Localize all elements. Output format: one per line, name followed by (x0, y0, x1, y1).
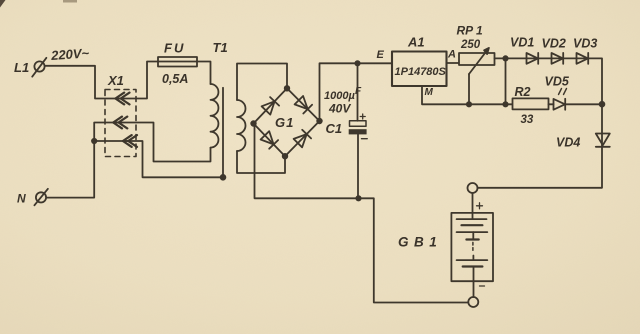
svg-text:0,5A: 0,5A (162, 72, 188, 86)
svg-text:F: F (355, 86, 362, 97)
junction dot right column (600, 102, 605, 107)
X1 contact 1 (115, 93, 129, 105)
resistor R2 (513, 98, 549, 109)
transformer T1 primary winding (211, 84, 219, 148)
svg-text:1Р14780S: 1Р14780S (395, 66, 447, 78)
svg-text:T1: T1 (213, 40, 228, 55)
svg-text:X1: X1 (107, 73, 124, 88)
svg-text:N: N (17, 192, 26, 206)
wire T1 secondary top to bridge input (237, 64, 287, 101)
junction dot C1 bottom (356, 196, 360, 200)
svg-text:G1: G1 (275, 115, 294, 130)
bridge diode bottom-right (294, 130, 312, 148)
wire VD5 to right column (565, 103, 602, 105)
wire junction to X1 contact 3 (94, 140, 128, 142)
wire bridge plus output to A1 input (320, 63, 393, 121)
svg-text:C1: C1 (326, 121, 343, 136)
bridge diode top-left (262, 97, 280, 115)
svg-text:1000µ: 1000µ (324, 90, 355, 102)
connector X1 dashed outline (105, 90, 136, 157)
bridge diode bottom-left (261, 131, 279, 149)
svg-text:VD5: VD5 (545, 75, 570, 89)
wire A1 output to RP1 (447, 62, 460, 64)
diode VD1 (527, 53, 539, 64)
wire T1 secondary bottom to bridge input (237, 151, 285, 173)
wire X1 contact 1 to fuse FU (119, 62, 211, 99)
wire N to X1 contacts 2 and 3 (47, 123, 120, 198)
wire A1 M pin to common rail (422, 86, 513, 104)
rectifier bridge G1 diamond (254, 88, 320, 156)
bridge diode top-right (295, 96, 313, 114)
wire RP1 to diode chain (478, 58, 602, 187)
X1 contact 3 (123, 135, 137, 147)
T1 core screen line (222, 88, 224, 178)
junction dot C1 top (355, 61, 359, 65)
junction dot (92, 139, 96, 143)
scan artifact top left corner (0, 0, 6, 8)
wire parallel link (505, 58, 507, 104)
junction dot (221, 175, 226, 180)
wire T1 primary bottom to X1 contact 2 (117, 123, 211, 162)
svg-text:VD4: VD4 (556, 135, 580, 149)
wire L1 to X1 contact 1 (45, 66, 122, 99)
battery GB1 (451, 183, 493, 307)
svg-text:VD2: VD2 (542, 37, 566, 51)
regulator A1 box (392, 52, 447, 87)
svg-text:VD1: VD1 (510, 36, 534, 50)
svg-text:VD3: VD3 (573, 37, 597, 51)
wire R2 to VD5 (549, 103, 554, 105)
junction dot (503, 56, 507, 60)
svg-text:L1: L1 (14, 60, 29, 75)
svg-text:R2: R2 (515, 85, 531, 99)
svg-text:FU: FU (164, 41, 185, 56)
X1 contact 2 (113, 117, 127, 129)
svg-text:A1: A1 (407, 35, 425, 50)
svg-text:40V: 40V (328, 102, 351, 116)
svg-text:250: 250 (460, 39, 481, 51)
diode VD4 (596, 134, 610, 147)
svg-text:220V~: 220V~ (50, 45, 90, 63)
fuse FU (158, 57, 197, 67)
svg-text:E: E (377, 49, 385, 61)
wire bridge minus output to GB1 minus (254, 124, 468, 303)
diode VD3 (577, 53, 589, 64)
svg-text:GB1: GB1 (398, 235, 442, 250)
svg-text:33: 33 (521, 114, 534, 126)
bridge corner dots (251, 86, 322, 159)
svg-text:M: M (425, 87, 434, 98)
svg-text:RP 1: RP 1 (457, 24, 484, 38)
diode VD2 (552, 53, 564, 64)
potentiometer RP1 (459, 48, 495, 104)
scan artifact top edge (63, 0, 77, 3)
terminal N (34, 189, 48, 206)
junction dot RP1 wiper (467, 102, 471, 106)
diode VD5 (554, 89, 567, 110)
terminal L1 (32, 58, 46, 77)
junction dot (503, 102, 507, 106)
wire X1 contact 3 to T1 screen (126, 141, 223, 177)
capacitor C1 (349, 63, 368, 198)
svg-text:A: A (447, 49, 456, 61)
transformer T1 secondary winding (237, 100, 246, 151)
